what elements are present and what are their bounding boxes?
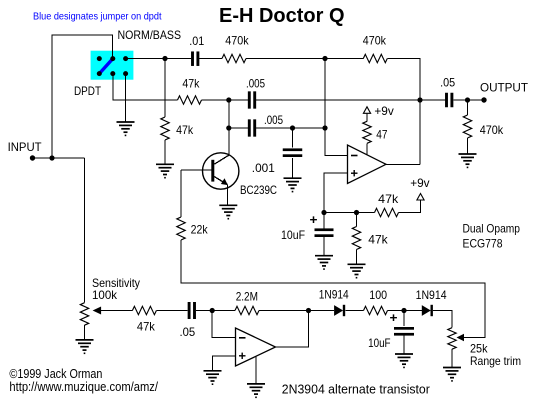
label .01 [189,34,204,48]
resistor R1 470k [222,54,246,62]
capacitor C4 .001 [283,148,303,157]
node row3 junction left [226,125,231,130]
title E-H Doctor Q [219,5,345,27]
svg-text:+: + [390,310,398,325]
trimmer VR2 wiper arrow [457,334,465,341]
svg-text:2.2M: 2.2M [236,290,258,304]
capacitor C7 .05 [188,302,196,319]
wire 10uF2 bottom [403,336,405,355]
svg-text:100: 100 [369,288,387,302]
wire DPDT bottom-right drop [125,74,127,122]
wire feedback vertical to opamp1 [325,59,348,156]
resistor R2 470k feedback [363,54,387,62]
wire row1 left [126,58,192,60]
label Sensitivity [92,276,140,290]
node row2/output junction [417,97,422,102]
svg-text:10uF: 10uF [368,336,391,350]
svg-text:.05: .05 [440,76,455,90]
resistor R8 470k output [463,115,471,138]
label .05 C7 [180,325,196,339]
label 470k R1 [225,34,249,48]
label 2.2M [236,290,258,304]
power +9v arrow bias [417,194,424,201]
wire row2 mid [202,99,249,101]
output terminal dot [481,97,486,102]
svg-text:.005: .005 [246,76,265,90]
svg-text:47: 47 [376,127,387,141]
wire U1B plus input [213,356,236,371]
resistor R6 47k bias [375,208,399,216]
wire DPDT bottom-mid drop [113,74,178,100]
resistor R10 47k [132,306,156,314]
resistor R11 2.2M [235,306,259,314]
svg-text:BC239C: BC239C [240,183,277,197]
transistor Q1 emitter diagonal [214,177,227,185]
label NORM/BASS [118,28,182,42]
wire Q1 emitter [227,185,229,206]
svg-text:47k: 47k [368,233,388,247]
wire .001 bottom [292,158,294,178]
svg-text:470k: 470k [480,123,504,137]
resistor R9 22k [177,217,185,240]
label 1N914 D2 [416,288,447,302]
op-amp U1A minus sign [351,155,358,157]
transistor Q1 emitter arrow [221,178,228,185]
transistor Q1 collector diagonal [214,155,229,164]
label 100k [92,288,118,302]
label Range trim [470,354,521,368]
svg-text:100k: 100k [92,288,118,302]
diode D1 1N914 [334,305,345,316]
wire row4 a [156,310,187,312]
capacitor C1 .01 [191,51,199,65]
capacitor C3 .005 [248,119,256,136]
DPDT contact dots [97,56,128,76]
wire 9v stem [366,113,368,121]
svg-text:OUTPUT: OUTPUT [480,80,529,94]
wire row1 mid [199,58,222,60]
resistor R3 47k [178,96,202,104]
svg-text:+9v: +9v [374,104,393,118]
label 100 R12 [369,288,387,302]
ground G5 r8 [459,154,477,168]
node row2 junction [226,97,231,102]
op-amp U1B triangle [236,328,276,366]
ground G6 c6 [315,256,333,270]
svg-text:NORM/BASS: NORM/BASS [118,28,182,42]
capacitor C6 10uF [315,228,334,237]
svg-text:E-H Doctor Q: E-H Doctor Q [219,5,345,27]
input terminal dot [30,155,35,160]
wire row4 f to trimmer [433,311,452,328]
wire 10uF2 top [403,311,405,327]
node row1/47k junction [162,56,167,61]
label 2N3904 alternate transistor [282,382,430,396]
wire trimmer bottom [451,349,453,367]
wire bias row [324,212,375,214]
label 22k R9 [191,222,209,236]
ground G3 emitter [219,205,237,219]
node row4 junction 3 [401,308,406,313]
ground G10 u1b vee [247,384,265,398]
label .05 C5 [440,76,455,90]
svg-text:ECG778: ECG778 [463,237,503,251]
wire U1A output [386,163,420,165]
label + C8 [390,310,398,325]
svg-text:2N3904 alternate transistor: 2N3904 alternate transistor [282,382,430,396]
label + C6 [310,212,318,227]
svg-text:Range trim: Range trim [470,354,521,368]
label BC239C [240,183,277,197]
wire row4 d [346,310,364,312]
wire input horizontal [33,157,85,159]
label 10uF C6 [281,228,305,242]
svg-text:INPUT: INPUT [8,140,43,154]
ground G2 r4 [156,164,174,178]
wire row1 mid2 [246,58,363,60]
label +9v bias [410,176,429,190]
label .005 C2 [246,76,265,90]
label OUTPUT [480,80,529,94]
node row3/opamp junction [322,125,327,130]
label 470k R8 [480,123,504,137]
label 47 R5 [376,127,387,141]
label 47k R6 [378,192,399,206]
node row1 feedback junction [322,56,327,61]
wire U1B output [276,311,309,348]
svg-text:.005: .005 [264,113,283,127]
svg-text:10uF: 10uF [281,228,305,242]
wire U1A plus input [324,173,348,212]
wire 10uF1 top [323,213,325,230]
capacitor C8 10uF [394,327,414,336]
node row3/.001 junction [290,125,295,130]
ground G9 u1b plus [204,371,222,385]
transistor Q1 circle [203,153,239,189]
label 47k R3 [182,76,200,90]
capacitor C5 .05 output [445,93,453,108]
label url [9,380,158,394]
resistor R5 47 [363,121,371,143]
wire 47 bottom [366,143,368,154]
label 47k R10 [137,320,156,334]
wire .001 top [292,128,294,147]
svg-text:1N914: 1N914 [416,288,447,302]
ground G4 c4 [284,178,302,192]
svg-text:22k: 22k [191,222,209,236]
wire pot top [84,158,86,303]
label +9v U1A [374,104,393,118]
label .005 C3 [264,113,283,127]
ground G8 pot [76,340,94,354]
DPDT jumper (blue) [99,59,113,74]
wire U1B vee [255,357,257,384]
wire 47k vertical top [164,59,166,118]
note: Blue designates jumper on dpdt [33,10,162,22]
wire Q1 base [181,169,211,171]
wire collector vertical [228,128,230,155]
ground G11 c8 [395,354,413,368]
diode D2 1N914 [422,305,433,316]
label 25k [470,342,488,356]
label 47k R4 [176,123,194,137]
svg-text:.01: .01 [189,34,204,48]
label DPDT [74,84,102,98]
wire 470k out top [467,100,469,115]
wire row1 right + drop to opamp output [387,59,420,165]
wire row4 b [196,310,235,312]
wire output cap to terminal [454,99,485,101]
wire row2-row3 vertical [228,100,230,128]
wire 22k top [180,170,182,217]
label 47k R7 [368,233,388,247]
op-amp U1B plus sign [239,353,246,359]
svg-text:DPDT: DPDT [74,84,102,98]
label 10uF C8 [368,336,391,350]
label INPUT [8,140,43,154]
wire 47k bias gnd bottom [356,250,358,265]
node row4 junction 2 [306,308,311,313]
wire bias to 9v [399,200,421,213]
label ECG778 [463,237,503,251]
svg-text:1N914: 1N914 [319,288,349,302]
wire 47k bias gnd top [356,213,358,227]
wire row3 right [256,127,325,129]
node bias junction 2 [354,210,359,215]
wire pot bottom [84,325,86,340]
op-amp U1B minus sign [239,337,246,339]
ground G7 r7 [348,264,366,278]
resistor R7 47k [352,227,360,250]
DPDT switch body (cyan) [91,51,134,80]
label 470k R2 [363,34,387,48]
svg-text:47k: 47k [176,123,194,137]
label .001 C4 [252,161,275,175]
wire row4 from wiper [101,310,132,312]
transistor Q1 base bar [211,160,214,182]
potentiometer VR1 100k [80,303,88,326]
label Dual Opamp [463,222,521,236]
ground G1 dpdt [117,122,135,136]
node input junction [49,155,54,160]
node output load junction [465,97,470,102]
svg-text:470k: 470k [363,34,387,48]
svg-text:Dual Opamp: Dual Opamp [463,222,521,236]
svg-text:47k: 47k [137,320,156,334]
potentiometer VR1 wiper arrow [93,307,102,315]
wire 22k to feedback [181,240,485,338]
resistor R4 47k vertical [161,117,169,140]
svg-text:470k: 470k [225,34,249,48]
op-amp U1A triangle [348,145,387,184]
wire input to top-left corner [52,35,113,158]
trimmer VR2 25k [448,328,456,350]
node row4 junction 1 [210,308,215,313]
label 1N914 D1 [319,288,349,302]
wire 470k out bottom [467,138,469,154]
wire row4 e [388,310,422,312]
node bias junction 1 [321,210,326,215]
ground G12 trimmer [443,368,461,382]
power +9v arrow U1A [363,107,370,114]
op-amp U1A plus sign [351,170,358,176]
svg-text:+: + [310,212,318,227]
svg-text:http://www.muzique.com/amz/: http://www.muzique.com/amz/ [9,380,158,394]
wire row2 right [256,99,446,101]
svg-text:47k: 47k [182,76,200,90]
resistor R12 100 [364,306,388,314]
wire 47k vertical bottom [164,140,166,164]
svg-text:+9v: +9v [410,176,429,190]
wire 10uF1 bottom [323,236,325,256]
wire row4 c [259,310,334,312]
svg-text:©1999 Jack Orman: ©1999 Jack Orman [9,367,102,381]
svg-text:.05: .05 [180,325,196,339]
svg-text:Blue designates jumper on dpdt: Blue designates jumper on dpdt [33,10,162,22]
capacitor C2 .005 [248,91,256,108]
wire U1B minus input [212,311,235,338]
label copyright [9,367,102,381]
svg-text:47k: 47k [378,192,399,206]
wire row3 left [229,127,248,129]
svg-text:.001: .001 [252,161,275,175]
